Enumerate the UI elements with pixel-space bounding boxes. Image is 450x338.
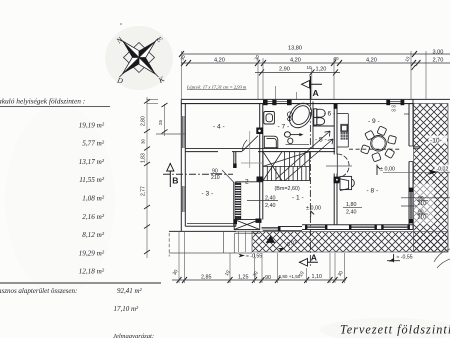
- svg-text:25: 25: [158, 120, 163, 125]
- svg-text:30: 30: [141, 139, 146, 144]
- svg-text:10: 10: [298, 270, 306, 278]
- bottom dimension witness lines: [179, 231, 345, 283]
- staircase: [263, 152, 310, 181]
- window left wall room 4: [183, 116, 184, 148]
- fraction 1,80/2,40: [346, 202, 357, 215]
- compass rose: [114, 34, 167, 86]
- svg-text:8,12 m²: 8,12 m²: [82, 231, 105, 239]
- svg-text:1,25: 1,25: [238, 274, 249, 280]
- svg-text:- 6 -: - 6 -: [324, 111, 336, 118]
- svg-text:Jelmagyarázat:: Jelmagyarázat:: [113, 333, 154, 338]
- bathtub taps: [287, 112, 292, 121]
- svg-text:Tervezett földszinti a: Tervezett földszinti a: [340, 323, 450, 337]
- svg-text:2,80: 2,80: [141, 116, 147, 126]
- toilet room 6 upper: [314, 109, 325, 118]
- fraction 2,40/2,40: [265, 195, 276, 209]
- svg-text:± 0,00: ± 0,00: [306, 206, 321, 212]
- total rule: [0, 282, 161, 284]
- window right wall room 8: [409, 188, 414, 224]
- terrace door right wall: [409, 146, 420, 162]
- kitchen counter room 9: [337, 114, 348, 147]
- window jambs top wall bath: [263, 100, 404, 105]
- toilet room 6 lower (bidet): [314, 117, 325, 125]
- svg-text:1,08 m²: 1,08 m²: [82, 195, 105, 203]
- svg-text:asznos alapterület összesen:: asznos alapterület összesen:: [0, 287, 77, 295]
- svg-text:210: 210: [418, 201, 427, 207]
- section marker A top: [302, 81, 323, 99]
- interior wall hall/room8: [334, 104, 340, 225]
- interior wall horizontal under rooms 4 and 7: [185, 149, 335, 152]
- level marker ±0,00 hall: [306, 206, 321, 212]
- level marker -0,55 bottom right: [387, 254, 413, 262]
- interior wall bath6/7 divider: [313, 102, 334, 149]
- svg-text:2,70: 2,70: [433, 57, 444, 63]
- top dimension labels: [180, 46, 444, 73]
- svg-text:2,85: 2,85: [201, 274, 212, 280]
- entrance triangle marker: [266, 236, 276, 243]
- bathtub room 7: [285, 99, 316, 132]
- level marker -0,55 bottom center: [239, 254, 263, 260]
- windows bottom wall: [305, 225, 410, 230]
- svg-text:-10-: -10-: [430, 138, 442, 145]
- section line B: [163, 173, 233, 175]
- svg-text:A: A: [311, 252, 317, 262]
- left room list areas: [79, 121, 105, 275]
- svg-text:92,41 m²: 92,41 m²: [117, 287, 143, 295]
- svg-text:Lépcső: 17 x 17,31 cm = 2,93 m: Lépcső: 17 x 17,31 cm = 2,93 m: [186, 84, 247, 90]
- svg-text:2,77: 2,77: [141, 186, 147, 196]
- svg-text:≈ -0,55: ≈ -0,55: [397, 254, 413, 260]
- svg-text:210: 210: [211, 175, 220, 181]
- svg-text:00: 00: [392, 109, 396, 113]
- section line A-A: [309, 76, 311, 267]
- armchair room 8: [334, 176, 354, 190]
- top dimension line overall: [181, 54, 450, 72]
- entry steps box with X: [234, 219, 262, 234]
- svg-text:- 7 -: - 7 -: [278, 124, 290, 131]
- svg-text:- 8 -: - 8 -: [367, 188, 379, 195]
- svg-text:30: 30: [334, 56, 340, 61]
- svg-text:11,55 m²: 11,55 m²: [79, 176, 105, 184]
- svg-text:2,16 m²: 2,16 m²: [82, 213, 105, 221]
- title bottom right: [340, 323, 450, 337]
- svg-text:19,19 m²: 19,19 m²: [79, 121, 105, 129]
- washbasin with mixer room 7: [284, 132, 309, 145]
- extension line left of room 4: [156, 133, 185, 135]
- level marker ±0,00 room 9: [380, 167, 395, 173]
- scan speck: [120, 23, 122, 25]
- top dimension ticks: [179, 51, 421, 75]
- svg-text:90: 90: [265, 275, 271, 281]
- dining table room 9: [371, 136, 387, 152]
- svg-text:12,18 m²: 12,18 m²: [79, 268, 105, 276]
- door dim 90/210 with leader: [211, 168, 220, 181]
- svg-text:4,20: 4,20: [366, 58, 377, 64]
- svg-text:- 2 -: - 2 -: [241, 179, 253, 186]
- window left wall room 3: [183, 186, 184, 212]
- svg-text:4,20: 4,20: [214, 58, 225, 64]
- svg-text:A: A: [313, 88, 319, 98]
- svg-text:- 1 -: - 1 -: [292, 195, 304, 202]
- svg-text:1,83: 1,83: [141, 153, 147, 163]
- chairs room 9: [361, 126, 397, 162]
- left room list heading: [0, 96, 85, 105]
- exterior wall bottom: [169, 223, 413, 231]
- svg-text:- 5 -: - 5 -: [315, 137, 327, 144]
- svg-text:2,90: 2,90: [279, 67, 290, 73]
- svg-text:30: 30: [337, 270, 345, 278]
- level line -0,02 terrace right: [383, 171, 450, 173]
- svg-text:13,80: 13,80: [288, 46, 302, 52]
- svg-text:5,77 m²: 5,77 m²: [82, 140, 105, 148]
- washbasin cabinet room 7: [264, 112, 275, 125]
- svg-text:3,00: 3,00: [433, 49, 444, 55]
- svg-text:- 3 -: - 3 -: [202, 191, 214, 198]
- bottom dimension labels: [172, 269, 345, 281]
- svg-text:30: 30: [172, 269, 180, 277]
- svg-text:17,10 m²: 17,10 m²: [114, 305, 140, 313]
- svg-text:1,20: 1,20: [316, 66, 327, 72]
- svg-text:13,17 m²: 13,17 m²: [79, 158, 105, 166]
- svg-text:4,20: 4,20: [290, 58, 301, 64]
- svg-text:(Bm=2,60): (Bm=2,60): [275, 186, 301, 192]
- stair note: [186, 84, 247, 90]
- left vertical dimension chain: [147, 97, 165, 258]
- svg-text:2,40: 2,40: [346, 209, 357, 215]
- svg-text:≈ -0,55: ≈ -0,55: [246, 254, 262, 260]
- svg-text:19,29 m²: 19,29 m²: [79, 249, 105, 257]
- interior wall room4 right / stair wall: [256, 104, 263, 220]
- svg-text:B: B: [172, 176, 178, 186]
- svg-text:- 4 -: - 4 -: [213, 124, 225, 131]
- interior wall rooms 3/2: [234, 152, 236, 227]
- shower corner room 7: [264, 136, 278, 148]
- door room 8 semicircle: [326, 154, 352, 178]
- arc bottom right corner: [434, 249, 450, 268]
- section marker B: [167, 163, 179, 187]
- ceiling height note: [275, 186, 301, 192]
- entry door threshold hall bottom: [262, 226, 281, 231]
- svg-text:6,80 +1,50: 6,80 +1,50: [279, 274, 301, 279]
- svg-text:± 0,00: ± 0,00: [380, 167, 395, 173]
- room labels: [202, 111, 380, 202]
- svg-text:2,40: 2,40: [265, 203, 276, 209]
- exterior wall right: [404, 99, 413, 229]
- top dimension witness lines: [182, 51, 427, 99]
- section marker A bottom: [299, 252, 318, 266]
- svg-text:10: 10: [224, 269, 232, 277]
- level marker -0,02 bottom terrace: [277, 239, 299, 252]
- terrace 10 hatched area right: [414, 104, 449, 253]
- radiator room 2: [235, 182, 263, 220]
- svg-text:10: 10: [307, 65, 313, 70]
- bottom dimension ticks: [177, 277, 348, 283]
- lower terrace outline bottom left: [169, 232, 252, 257]
- room 8/9 divider dashed: [349, 148, 402, 150]
- stair direction arrows over corridor 5: [276, 131, 333, 181]
- exterior wall left: [181, 99, 185, 231]
- svg-text:30: 30: [252, 270, 260, 278]
- terrace hatched strip bottom: [252, 232, 448, 253]
- totals: [0, 287, 154, 338]
- svg-text:1,10: 1,10: [312, 274, 323, 280]
- exterior wall top: [181, 99, 450, 103]
- svg-text:10: 10: [404, 55, 411, 62]
- top right window marks oo/oo: [392, 105, 396, 113]
- bottom dimension line: [172, 279, 346, 281]
- svg-text:akuló helyiségek földszinten :: akuló helyiségek földszinten :: [0, 96, 85, 105]
- svg-text:210: 210: [418, 215, 427, 221]
- window dims right 90/210 stack: [414, 184, 435, 225]
- door swing room 4: [242, 136, 258, 151]
- svg-text:-0,02: -0,02: [437, 166, 449, 172]
- svg-text:- 9 -: - 9 -: [368, 118, 380, 125]
